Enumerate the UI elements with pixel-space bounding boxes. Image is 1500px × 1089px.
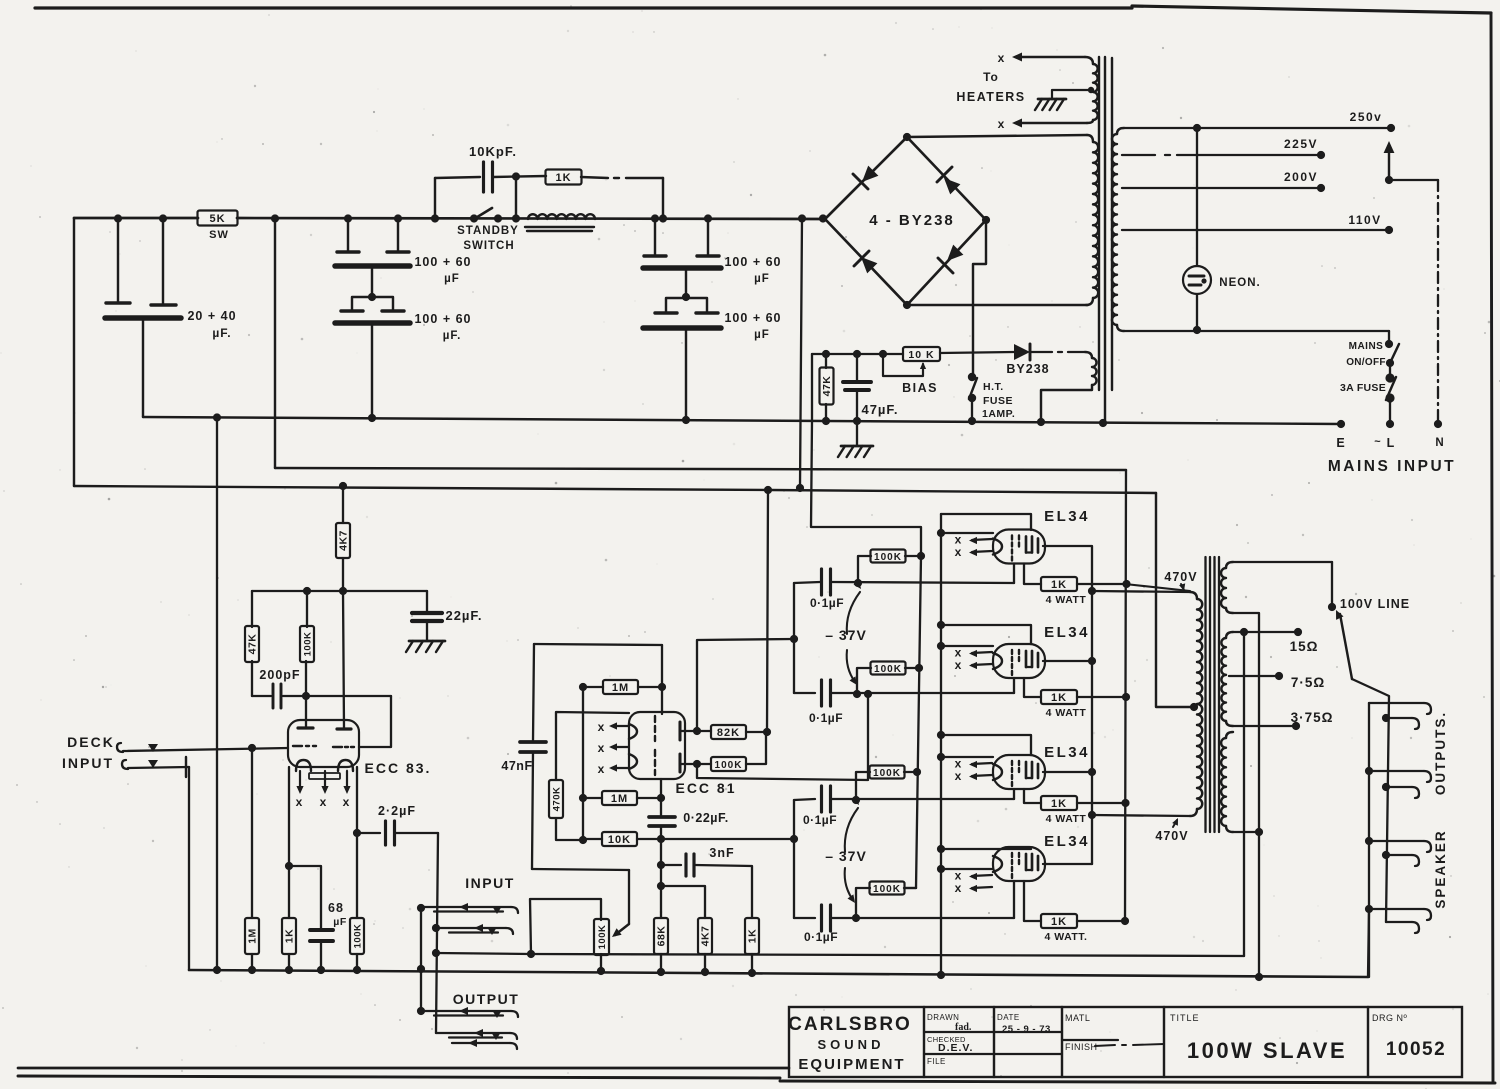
svg-text:0·1µF: 0·1µF [809, 711, 843, 725]
svg-text:4 - BY238: 4 - BY238 [869, 212, 955, 229]
svg-text:1M: 1M [247, 928, 259, 944]
svg-text:µF: µF [754, 273, 770, 285]
svg-text:DATE: DATE [997, 1013, 1020, 1022]
svg-text:FUSE: FUSE [983, 395, 1013, 407]
svg-text:ECC 81: ECC 81 [675, 780, 736, 796]
svg-text:E: E [1336, 436, 1345, 450]
svg-text:DRAWN: DRAWN [927, 1013, 959, 1022]
svg-text:1K: 1K [1051, 692, 1067, 704]
svg-text:100K: 100K [597, 925, 608, 950]
svg-text:1M: 1M [611, 793, 628, 805]
svg-text:x: x [598, 741, 605, 755]
svg-text:5K: 5K [209, 213, 225, 225]
svg-text:x: x [955, 658, 962, 672]
svg-text:47K: 47K [247, 634, 259, 655]
svg-text:100K: 100K [715, 760, 743, 771]
svg-text:25 - 9 - 73: 25 - 9 - 73 [1002, 1024, 1051, 1035]
svg-text:µF: µF [333, 916, 347, 928]
svg-text:x: x [598, 720, 605, 734]
svg-text:100K: 100K [874, 552, 902, 563]
svg-text:1K: 1K [1051, 916, 1067, 928]
svg-text:250v: 250v [1350, 110, 1383, 124]
svg-text:2·2µF: 2·2µF [378, 804, 416, 818]
svg-text:fad.: fad. [955, 1022, 972, 1033]
svg-text:x: x [598, 762, 605, 776]
svg-text:0·1µF: 0·1µF [810, 596, 844, 610]
svg-text:MAINS: MAINS [1349, 341, 1384, 352]
svg-text:100V LINE: 100V LINE [1340, 597, 1410, 611]
svg-text:100K: 100K [303, 632, 314, 657]
svg-text:FILE: FILE [927, 1057, 946, 1066]
svg-text:68K: 68K [656, 926, 668, 947]
svg-text:SOUND: SOUND [818, 1037, 885, 1052]
svg-text:1K: 1K [1051, 579, 1067, 591]
svg-text:µF: µF [444, 273, 460, 285]
svg-text:x: x [955, 881, 962, 895]
svg-text:EL34: EL34 [1044, 624, 1090, 641]
svg-text:200pF: 200pF [259, 668, 300, 682]
svg-text:100K: 100K [873, 768, 901, 779]
svg-text:100K: 100K [874, 664, 902, 675]
svg-text:47µF.: 47µF. [861, 402, 898, 417]
svg-text:0·22µF.: 0·22µF. [683, 811, 728, 825]
svg-text:ECC 83.: ECC 83. [365, 760, 432, 776]
svg-text:10052: 10052 [1386, 1039, 1446, 1060]
svg-text:3A FUSE: 3A FUSE [1340, 382, 1386, 394]
svg-text:H.T.: H.T. [983, 381, 1004, 393]
svg-text:47K: 47K [821, 376, 833, 397]
svg-text:4K7: 4K7 [700, 926, 712, 947]
svg-text:4 WATT: 4 WATT [1046, 594, 1087, 606]
svg-text:10K: 10K [608, 834, 631, 846]
svg-text:x: x [343, 795, 350, 809]
svg-text:µF.: µF. [443, 330, 462, 342]
svg-text:N: N [1435, 437, 1444, 449]
svg-text:SPEAKER: SPEAKER [1433, 829, 1448, 908]
svg-text:x: x [296, 795, 303, 809]
svg-text:OUTPUTS.: OUTPUTS. [1433, 711, 1448, 795]
svg-text:100 + 60: 100 + 60 [724, 255, 781, 269]
svg-text:470K: 470K [552, 787, 563, 812]
svg-text:EL34: EL34 [1044, 833, 1090, 850]
svg-text:100W SLAVE: 100W SLAVE [1187, 1038, 1347, 1063]
svg-text:7·5Ω: 7·5Ω [1291, 675, 1325, 690]
svg-text:INPUT: INPUT [62, 755, 114, 771]
svg-text:100K: 100K [353, 924, 364, 949]
svg-text:1M: 1M [612, 682, 629, 694]
svg-text:0·1µF: 0·1µF [803, 813, 837, 827]
svg-text:100 + 60: 100 + 60 [414, 312, 471, 326]
svg-text:22µF.: 22µF. [445, 608, 482, 623]
svg-text:FINISH: FINISH [1065, 1042, 1098, 1052]
svg-text:INPUT: INPUT [465, 875, 515, 891]
svg-text:100 + 60: 100 + 60 [414, 255, 471, 269]
svg-text:4 WATT: 4 WATT [1046, 813, 1087, 825]
svg-text:4 WATT.: 4 WATT. [1045, 931, 1088, 943]
svg-text:1K: 1K [555, 172, 571, 184]
svg-text:~: ~ [1374, 436, 1381, 448]
svg-text:82K: 82K [717, 727, 740, 739]
svg-text:TITLE: TITLE [1170, 1013, 1200, 1023]
svg-text:10 K: 10 K [908, 349, 934, 361]
svg-text:1K: 1K [747, 929, 759, 943]
svg-text:CARLSBRO: CARLSBRO [788, 1014, 912, 1035]
svg-text:1K: 1K [284, 929, 296, 943]
svg-text:47nF: 47nF [501, 759, 532, 773]
svg-text:ON/OFF: ON/OFF [1346, 357, 1386, 368]
svg-text:EL34: EL34 [1044, 744, 1090, 761]
svg-text:1AMP.: 1AMP. [982, 408, 1015, 420]
svg-text:10KpF.: 10KpF. [469, 144, 517, 159]
svg-text:MAINS INPUT: MAINS INPUT [1328, 458, 1456, 475]
svg-text:100K: 100K [873, 884, 901, 895]
svg-text:470V: 470V [1155, 829, 1188, 843]
svg-text:SW: SW [209, 229, 229, 241]
svg-text:BY238: BY238 [1006, 362, 1049, 376]
svg-text:To: To [983, 70, 999, 84]
svg-text:3·75Ω: 3·75Ω [1291, 710, 1334, 725]
svg-text:0·1µF: 0·1µF [804, 930, 838, 944]
svg-text:DECK: DECK [67, 734, 115, 750]
svg-text:L: L [1387, 436, 1396, 450]
svg-text:MATL: MATL [1065, 1013, 1090, 1023]
svg-text:x: x [320, 795, 327, 809]
svg-text:DRG Nº: DRG Nº [1372, 1013, 1407, 1023]
svg-text:STANDBY: STANDBY [457, 225, 519, 237]
svg-text:HEATERS: HEATERS [956, 90, 1025, 104]
svg-text:EQUIPMENT: EQUIPMENT [798, 1056, 905, 1073]
svg-text:15Ω: 15Ω [1290, 639, 1319, 654]
svg-text:BIAS: BIAS [902, 381, 938, 395]
svg-text:– 37V: – 37V [825, 848, 867, 864]
svg-text:3nF: 3nF [709, 846, 734, 860]
svg-text:x: x [955, 545, 962, 559]
svg-text:x: x [955, 769, 962, 783]
svg-text:68: 68 [328, 901, 344, 915]
svg-text:µF: µF [754, 329, 770, 341]
svg-text:NEON.: NEON. [1219, 277, 1260, 289]
svg-text:110V: 110V [1348, 213, 1381, 227]
svg-text:1K: 1K [1051, 798, 1067, 810]
svg-text:470V: 470V [1164, 570, 1197, 584]
svg-text:4 WATT: 4 WATT [1046, 707, 1087, 719]
svg-text:D.E.V.: D.E.V. [938, 1042, 973, 1054]
svg-text:OUTPUT: OUTPUT [453, 991, 520, 1007]
svg-text:x: x [998, 117, 1005, 131]
svg-text:200V: 200V [1284, 170, 1318, 184]
svg-text:x: x [998, 51, 1005, 65]
svg-text:EL34: EL34 [1044, 508, 1090, 525]
svg-text:20 + 40: 20 + 40 [187, 309, 236, 323]
svg-text:µF.: µF. [212, 326, 231, 340]
svg-text:4K7: 4K7 [338, 530, 350, 551]
svg-text:100 + 60: 100 + 60 [724, 311, 781, 325]
svg-text:225V: 225V [1284, 137, 1318, 151]
svg-text:SWITCH: SWITCH [463, 240, 514, 252]
